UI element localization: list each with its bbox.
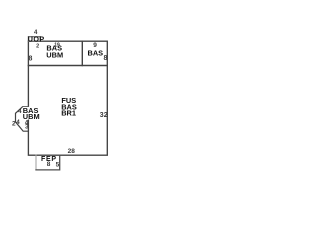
main building outline — [28, 41, 107, 155]
bay labels background — [23, 107, 38, 120]
svg-text:BR1: BR1 — [61, 109, 76, 118]
svg-text:5: 5 — [56, 162, 60, 169]
bay window polygon — [16, 107, 29, 132]
svg-text:BAS: BAS — [87, 48, 103, 57]
svg-text:8: 8 — [47, 161, 51, 168]
interior vertical divider in top band — [81, 41, 83, 65]
svg-text:UBM: UBM — [46, 50, 63, 59]
svg-text:2: 2 — [36, 43, 39, 49]
svg-text:32: 32 — [100, 112, 108, 119]
svg-text:2: 2 — [12, 120, 16, 127]
FEP porch box — [35, 155, 37, 170]
UOP porch box — [28, 37, 40, 42]
svg-text:8: 8 — [103, 55, 107, 62]
svg-text:UOP: UOP — [28, 35, 45, 44]
svg-text:28: 28 — [68, 148, 76, 155]
svg-text:8: 8 — [28, 55, 32, 62]
interior horizontal wall under top band — [28, 65, 107, 67]
svg-text:3: 3 — [25, 124, 29, 131]
